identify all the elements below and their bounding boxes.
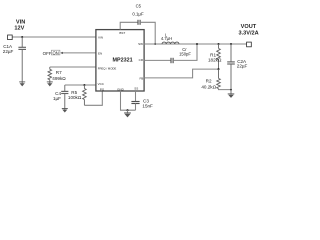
ground (C4)	[62, 109, 68, 113]
op-amp U1 MP2321 IC body	[96, 30, 144, 91]
node GND/SS junction	[126, 109, 128, 111]
wire SW to VOUT rail	[144, 43, 247, 45]
ground (C1A)	[19, 82, 25, 87]
terminal VIN	[8, 35, 13, 40]
svg-text:OFF: OFF	[43, 51, 52, 56]
wire GND pin down	[121, 91, 136, 110]
svg-text:VCC: VCC	[98, 82, 105, 86]
svg-text:150pF: 150pF	[179, 52, 191, 57]
node FB junction	[217, 68, 219, 70]
resistor R2 40.2k	[218, 69, 220, 78]
svg-text:VOUT: VOUT	[241, 24, 257, 30]
inductor L 4.7uH	[162, 42, 179, 44]
svg-text:BST: BST	[119, 31, 125, 35]
node Cr/VOUT junction	[196, 43, 198, 45]
svg-text:FREQ / MODE: FREQ / MODE	[98, 66, 117, 70]
svg-text:499kΩ: 499kΩ	[52, 76, 66, 81]
wire FREQ/MODE	[50, 66, 96, 68]
node VCC/R5 junction	[83, 84, 85, 86]
capacitor C2A 22uF	[227, 44, 235, 95]
wire VIN input rail	[12, 36, 96, 38]
capacitor C5 0.1uF bootstrap	[120, 20, 155, 44]
node VIN/C1A junction	[21, 36, 23, 38]
svg-text:100kΩ: 100kΩ	[68, 95, 82, 100]
svg-text:EN: EN	[98, 51, 102, 55]
capacitor C4 1uF	[61, 85, 68, 109]
wire FB	[144, 69, 218, 78]
svg-text:SS: SS	[134, 87, 138, 91]
svg-text:VIN: VIN	[98, 36, 103, 40]
node R1 top junction	[217, 43, 219, 45]
svg-text:C5: C5	[136, 3, 142, 8]
resistor R1 182k	[218, 44, 220, 48]
svg-text:22µF: 22µF	[237, 64, 248, 69]
capacitor C1A 22uF	[18, 37, 26, 83]
svg-text:0.1µF: 0.1µF	[132, 11, 144, 16]
svg-text:GND: GND	[117, 87, 125, 91]
svg-text:40.2kΩ: 40.2kΩ	[201, 84, 216, 89]
svg-text:15nF: 15nF	[142, 104, 153, 109]
node SW/C5 junction	[154, 43, 156, 45]
svg-text:R2: R2	[206, 79, 212, 84]
svg-text:12V: 12V	[14, 26, 24, 32]
svg-text:FB: FB	[139, 76, 143, 80]
svg-text:SW: SW	[138, 42, 143, 46]
wire EN with arrowhead	[61, 52, 96, 54]
svg-text:1µF: 1µF	[53, 96, 61, 101]
svg-text:MP2321: MP2321	[113, 57, 133, 63]
svg-text:R7: R7	[56, 70, 62, 75]
resistor R5 100k	[83, 85, 85, 89]
node C2A top junction	[230, 43, 232, 45]
svg-text:4.7µH: 4.7µH	[161, 36, 172, 41]
ground (IC GND)	[124, 110, 131, 117]
capacitor C3 15nF soft-start	[131, 91, 139, 110]
node R2/C2A ground junction	[230, 89, 232, 91]
svg-text:182kΩ: 182kΩ	[208, 57, 222, 62]
ground (R7)	[47, 82, 53, 87]
svg-text:ON: ON	[53, 50, 59, 55]
svg-text:VIN: VIN	[16, 19, 25, 25]
svg-text:22µF: 22µF	[3, 49, 14, 54]
ground (output)	[228, 94, 235, 98]
capacitor Cr 150pF	[144, 44, 197, 63]
svg-text:PG: PG	[100, 87, 105, 91]
resistor R7 499k	[49, 67, 51, 69]
wire PG loop	[84, 91, 102, 105]
terminal VOUT	[247, 42, 252, 47]
wire VCC	[65, 84, 96, 86]
svg-text:3.3V/2A: 3.3V/2A	[238, 30, 258, 36]
